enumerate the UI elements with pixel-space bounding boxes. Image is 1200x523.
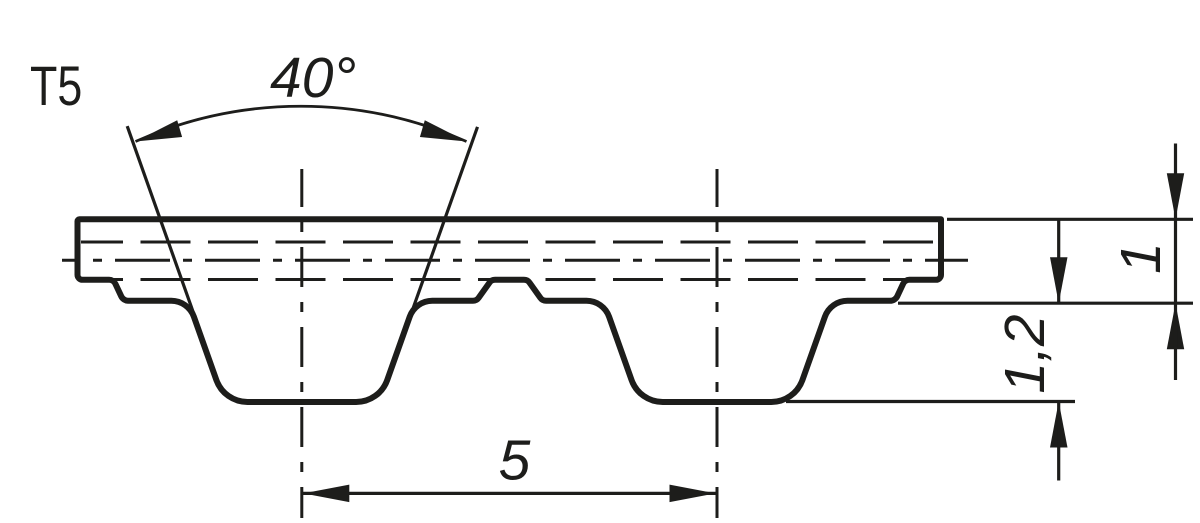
svg-text:40°: 40° [270,46,356,110]
dashed line upper (inside belt) [81,241,938,244]
tooth 1 centreline [300,169,303,518]
arc arrowhead left [136,120,183,141]
arc arrowhead right [420,120,467,141]
dashed line lower (inside belt) [81,278,938,281]
dimension 1: lower arrowhead [1167,303,1184,349]
dimension 1,2: lower shaft [1057,402,1060,481]
right flank extension line (angle) [405,127,478,331]
middle extension line (root) [898,302,1193,305]
svg-text:1,2: 1,2 [993,314,1057,393]
svg-text:5: 5 [499,429,531,493]
dimension 1: upper shaft [1174,144,1177,220]
dimension 5: right arrowhead [670,485,716,503]
dimension 5: left arrowhead [303,485,349,503]
dimension 1: span line [1174,219,1177,303]
40deg dimension arc [136,106,467,141]
svg-text:1: 1 [1109,242,1173,274]
dimension 5: line [302,492,717,495]
top extension line (belt top) [947,218,1193,221]
belt profile outline [78,219,942,402]
tooth 2 centreline [716,169,719,518]
dimension 1: lower shaft [1174,303,1177,380]
horizontal dash-dot pitch axis [62,259,968,262]
dimension 1,2: upper arrowhead [1050,257,1068,303]
dimension 1,2: upper shaft [1057,220,1060,303]
svg-text:T5: T5 [30,54,82,117]
left flank extension line (angle) [127,126,200,331]
dimension 1: upper arrowhead [1167,173,1184,219]
dimension 1,2: lower arrowhead [1050,402,1068,448]
bottom extension line (tooth tip) [786,400,1075,403]
